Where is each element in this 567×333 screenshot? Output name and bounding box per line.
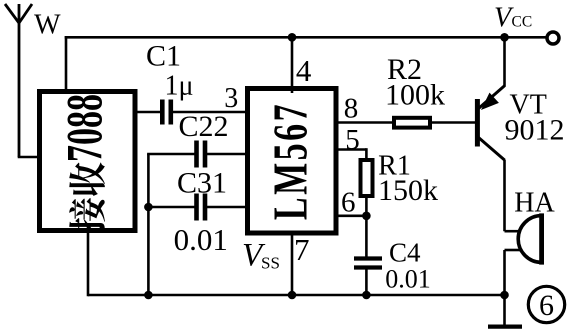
- svg-text:C31: C31: [177, 167, 227, 200]
- svg-text:0.01: 0.01: [174, 222, 228, 257]
- pin 5 wire: [336, 148, 366, 151]
- antenna W: [5, 4, 32, 157]
- label 接收7088: [57, 94, 113, 231]
- svg-text:6: 6: [539, 289, 554, 322]
- wire R2 to base: [430, 121, 475, 124]
- wire collector down: [503, 160, 506, 231]
- wire emitter to Vcc: [503, 37, 506, 86]
- vertical bypass wire: [147, 154, 150, 295]
- wire node to C4: [365, 216, 368, 259]
- svg-text:9012: 9012: [505, 114, 565, 147]
- wire antenna to receiver: [18, 156, 40, 159]
- node junction Vcc: [500, 33, 509, 42]
- svg-text:C22: C22: [178, 110, 228, 143]
- wire speaker to rail: [503, 250, 506, 295]
- capacitor C31: [197, 194, 206, 221]
- node rail right: [500, 291, 509, 300]
- wire C31 left: [148, 206, 196, 209]
- wire C22 left: [147, 153, 196, 156]
- op-amp U1 LM567 box: [248, 89, 337, 234]
- speaker HA: [505, 213, 542, 264]
- node R1 C4 junction: [362, 212, 371, 221]
- svg-text:HA: HA: [514, 188, 555, 219]
- pin 8 wire: [336, 121, 394, 124]
- bottom rail: [88, 294, 505, 297]
- svg-text:C1: C1: [146, 40, 181, 73]
- wire C4 to rail: [365, 268, 368, 296]
- svg-text:5: 5: [345, 124, 360, 156]
- wire R1 to node: [365, 196, 368, 216]
- resistor R1: [361, 160, 373, 196]
- wire receiver bottom to rail: [87, 231, 90, 296]
- svg-text:1μ: 1μ: [164, 71, 193, 102]
- ground: [488, 295, 522, 327]
- pin 4 wire: [291, 37, 294, 93]
- svg-text:LM567: LM567: [264, 102, 319, 220]
- resistor R2: [394, 118, 430, 128]
- wire C22 to LM567: [207, 153, 248, 156]
- svg-text:7: 7: [294, 232, 310, 267]
- Vcc rail: [292, 36, 505, 39]
- node rail pin7: [288, 291, 297, 300]
- pin 7 wire: [291, 231, 294, 295]
- svg-text:6: 6: [341, 187, 356, 219]
- svg-text:150k: 150k: [378, 174, 438, 207]
- wire C31 to LM567: [207, 206, 248, 209]
- svg-text:8: 8: [344, 93, 359, 125]
- svg-text:4: 4: [296, 53, 312, 88]
- pin 6 wire: [336, 215, 366, 218]
- node rail bypass: [144, 291, 153, 300]
- node junction pin4 top: [288, 33, 297, 42]
- svg-text:W: W: [34, 9, 61, 40]
- figure number 6: [528, 286, 564, 322]
- svg-text:100k: 100k: [385, 79, 445, 112]
- svg-text:0.01: 0.01: [385, 265, 431, 294]
- svg-text:CC: CC: [512, 14, 533, 31]
- label LM567: [264, 102, 319, 220]
- capacitor C1: [162, 100, 171, 125]
- Vcc terminal: [547, 32, 559, 44]
- wire receiver to C1: [135, 111, 161, 114]
- svg-text:7088: 7088: [57, 94, 113, 162]
- receiver box 7088: [40, 92, 136, 231]
- svg-text:SS: SS: [261, 254, 280, 273]
- capacitor C4: [354, 259, 382, 268]
- wire receiver top to Vcc rail: [65, 36, 68, 92]
- wire C1 to pin 3: [173, 111, 248, 114]
- transistor Q1 VT 9012: [475, 86, 505, 161]
- node C31 junction: [144, 203, 153, 212]
- node rail C4: [362, 291, 371, 300]
- capacitor C22: [197, 141, 206, 168]
- svg-text:C4: C4: [389, 238, 421, 268]
